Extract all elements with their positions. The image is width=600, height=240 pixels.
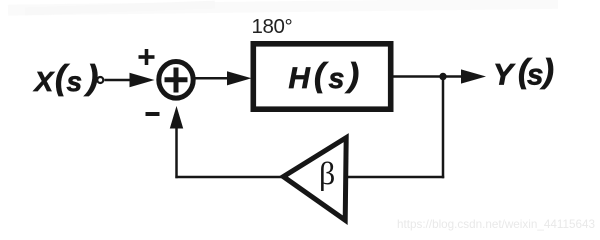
svg-text:180°: 180° <box>252 15 293 38</box>
svg-text:https://blog.csdn.net/weixin_4: https://blog.csdn.net/weixin_44115643 <box>397 218 595 231</box>
svg-text:X: X <box>33 66 56 97</box>
svg-text:Y: Y <box>493 59 516 92</box>
svg-text:β: β <box>319 155 335 191</box>
svg-text:): ) <box>345 57 359 94</box>
svg-text:s: s <box>67 66 83 97</box>
svg-text:s: s <box>329 63 345 95</box>
svg-text:): ) <box>84 59 98 97</box>
svg-text:s: s <box>527 59 543 92</box>
svg-text:H: H <box>289 62 311 95</box>
svg-text:): ) <box>540 52 554 89</box>
